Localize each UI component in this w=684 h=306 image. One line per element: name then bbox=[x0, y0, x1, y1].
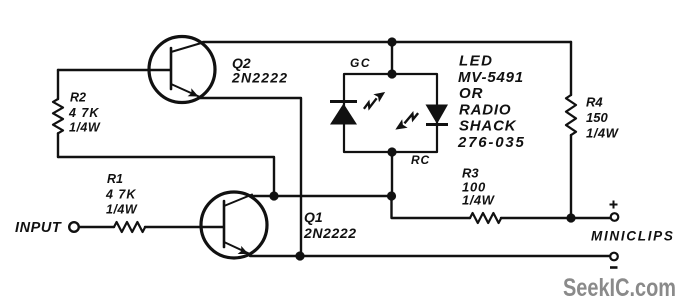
svg-text:150: 150 bbox=[586, 110, 608, 125]
resistor R2 zigzag bbox=[53, 99, 63, 133]
transistor Q2 bbox=[149, 37, 215, 103]
resistor R1 zigzag bbox=[114, 222, 145, 232]
node dot box top bbox=[387, 69, 396, 78]
node dot bottom rail bbox=[295, 251, 304, 260]
svg-text:4 7K: 4 7K bbox=[105, 188, 136, 202]
LED D2 right bbox=[393, 105, 448, 134]
node dot collector net bbox=[387, 191, 396, 200]
terminal INPUT bbox=[69, 222, 79, 232]
terminal minus bbox=[610, 253, 618, 261]
wire R2 top run to Q2 base bbox=[58, 69, 170, 71]
wire R4 branch bottom bbox=[570, 135, 572, 218]
svg-text:RC: RC bbox=[411, 153, 430, 167]
wire R2 bottom run bbox=[58, 157, 274, 196]
emission arrow D2 bbox=[393, 110, 422, 134]
svg-text:GC: GC bbox=[350, 56, 371, 70]
svg-text:R3: R3 bbox=[462, 166, 479, 181]
svg-text:R2: R2 bbox=[70, 91, 86, 105]
minus sign bbox=[610, 266, 618, 269]
wire node to R3 bbox=[392, 196, 471, 218]
plus sign bbox=[610, 201, 618, 209]
node dot R3-R4 bbox=[566, 213, 575, 222]
svg-text:R4: R4 bbox=[586, 95, 603, 110]
wire top rail bbox=[203, 41, 571, 43]
svg-text:OR: OR bbox=[459, 85, 484, 102]
svg-text:1/4W: 1/4W bbox=[462, 193, 496, 208]
wire collector run bbox=[250, 195, 392, 197]
LED D1 left bbox=[330, 88, 388, 124]
terminal plus bbox=[611, 213, 619, 221]
svg-text:2N2222: 2N2222 bbox=[303, 225, 357, 241]
svg-text:MINICLIPS: MINICLIPS bbox=[591, 229, 675, 244]
wire Q2 emitter run bbox=[200, 98, 301, 256]
wire input to Q1 base bbox=[145, 226, 223, 228]
svg-text:SeekIC.com: SeekIC.com bbox=[563, 274, 676, 302]
svg-text:276-035: 276-035 bbox=[457, 134, 526, 151]
wire R2 vertical top bbox=[57, 70, 59, 99]
svg-text:MV-5491: MV-5491 bbox=[458, 69, 524, 86]
wire R3 to plus terminal bbox=[501, 217, 610, 219]
wire LED branch from rail bbox=[391, 42, 393, 74]
wire input left bbox=[79, 226, 114, 228]
wire R4 branch top bbox=[570, 42, 572, 95]
wire bottom rail bbox=[250, 255, 610, 257]
svg-text:RADIO: RADIO bbox=[459, 102, 511, 119]
resistor R4 zigzag bbox=[566, 95, 576, 135]
wire R2 vertical bottom bbox=[57, 133, 59, 157]
svg-text:LED: LED bbox=[459, 53, 494, 70]
node dot R2-collector bbox=[269, 191, 278, 200]
svg-text:R1: R1 bbox=[107, 172, 123, 186]
svg-text:1/4W: 1/4W bbox=[69, 121, 101, 135]
svg-text:INPUT: INPUT bbox=[15, 220, 62, 236]
resistor R3 zigzag bbox=[470, 213, 501, 223]
svg-text:1/4W: 1/4W bbox=[106, 203, 138, 217]
transistor Q1 bbox=[201, 192, 267, 258]
svg-text:4 7K: 4 7K bbox=[68, 106, 99, 120]
svg-text:Q1: Q1 bbox=[304, 209, 323, 225]
node dot rail-LED bbox=[387, 37, 396, 46]
svg-text:1/4W: 1/4W bbox=[586, 126, 620, 141]
wire box bottom to collector node bbox=[391, 152, 393, 196]
svg-text:2N2222: 2N2222 bbox=[231, 70, 288, 86]
LED package box bbox=[344, 74, 437, 152]
emission arrow D1 bbox=[360, 88, 388, 111]
node dot box bottom bbox=[387, 147, 396, 156]
svg-text:SHACK: SHACK bbox=[459, 118, 517, 135]
